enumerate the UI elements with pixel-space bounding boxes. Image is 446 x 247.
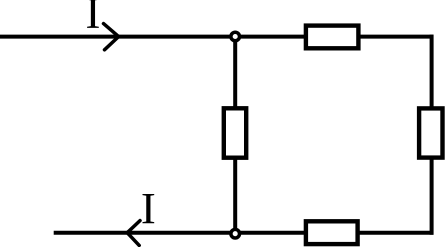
wire top horizontal (left lead from edge to node A) bbox=[0, 35, 235, 39]
wire bottom horizontal (resistor R4 to node B) bbox=[235, 231, 305, 235]
resistor R1 (top horizontal) bbox=[306, 26, 359, 49]
node A (top junction dot, open circle) bbox=[231, 32, 240, 41]
wire middle vertical (node A to resistor R2) bbox=[233, 37, 237, 107]
label I (top current) bbox=[87, 0, 99, 28]
node B (bottom junction dot, open circle) bbox=[231, 229, 240, 238]
wire right vertical (top-right corner to resistor R3) bbox=[430, 35, 434, 107]
wire right vertical (resistor R3 to bottom-right corner) bbox=[430, 159, 434, 235]
resistor R2 (middle vertical) bbox=[224, 108, 246, 157]
arrowhead current direction left (bottom wire) bbox=[127, 221, 140, 246]
resistor R3 (right vertical) bbox=[419, 108, 442, 157]
wire bottom horizontal (bottom-right corner to resistor R4) bbox=[359, 231, 433, 235]
arrowhead current direction right (top wire) bbox=[104, 24, 119, 50]
wire bottom horizontal (node B to open left end) bbox=[54, 231, 235, 235]
wire middle vertical (resistor R2 to node B) bbox=[233, 159, 237, 233]
resistor R4 (bottom horizontal) bbox=[306, 221, 358, 244]
wire top horizontal (node A to resistor R1) bbox=[235, 35, 304, 39]
wire top horizontal (resistor R1 to top-right corner) bbox=[360, 35, 433, 39]
label I (bottom current) bbox=[142, 194, 154, 223]
